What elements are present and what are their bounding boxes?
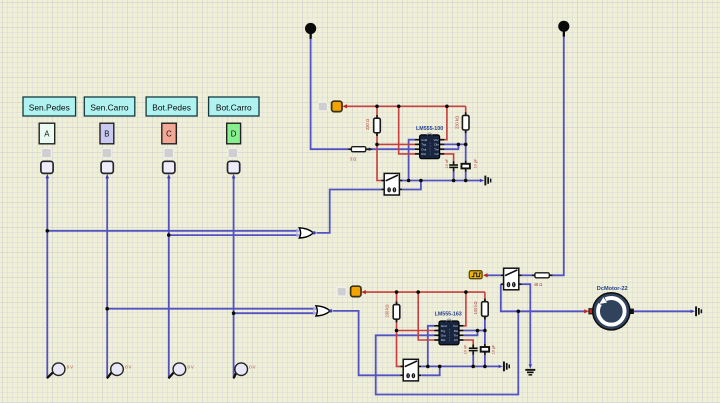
node C branch bbox=[167, 233, 171, 237]
pulse source icon bbox=[469, 271, 482, 279]
wire relay1 coil drop bbox=[402, 181, 421, 190]
wire switch C down to probe bbox=[168, 177, 170, 379]
node Thr2 tie bbox=[476, 329, 480, 333]
wire red rail to Rst1 bbox=[399, 106, 415, 154]
wire Gnd1 pin to bottom rail bbox=[409, 140, 416, 181]
svg-text:0 V: 0 V bbox=[249, 364, 255, 369]
svg-text:0 V: 0 V bbox=[188, 364, 194, 369]
svg-text:DcMotor-22: DcMotor-22 bbox=[597, 286, 628, 292]
wire red CV1 to cap1 bbox=[444, 154, 454, 162]
wire Dis1 to 230k leg bbox=[444, 143, 466, 145]
wire red CV2 to cap3 bbox=[464, 340, 474, 344]
wire D to OR2 input bbox=[234, 312, 314, 314]
node rail1-R1 bbox=[375, 105, 379, 109]
node D branch bbox=[232, 311, 236, 315]
node rail2-R4 bbox=[395, 290, 399, 294]
push switch C bbox=[163, 161, 175, 173]
node Trg2 bbox=[395, 329, 399, 333]
IC U1 LM555-100 bbox=[415, 133, 444, 159]
node coil1 drop bbox=[419, 179, 423, 183]
wire red R4 bottom to relay2 bbox=[397, 319, 401, 366]
wire switch D down to probe bbox=[233, 177, 235, 379]
label box Bot.Pedes bbox=[146, 97, 197, 116]
wire bottom ground rail 1 bbox=[402, 180, 481, 182]
capacitor C4 10uF bbox=[481, 344, 489, 355]
wire Thr2 tie to Dis2 bbox=[464, 331, 478, 336]
wire red Vcc2 to rail2 bbox=[464, 292, 466, 326]
gray indicator 2 bbox=[337, 287, 346, 296]
svg-text:D: D bbox=[231, 129, 237, 138]
capacitor C1 10nF bbox=[449, 161, 458, 171]
wire cap4 bottom bbox=[484, 354, 486, 366]
arrow into G4 bbox=[691, 310, 695, 313]
svg-text:230 Ω: 230 Ω bbox=[365, 119, 370, 130]
resistor R1 230 Ohm bbox=[374, 115, 381, 136]
arrow into G3 bbox=[529, 364, 532, 368]
node Thr1 tie bbox=[457, 143, 461, 147]
input B box bbox=[100, 123, 114, 144]
capacitor C2 10uF bbox=[462, 161, 470, 172]
wire Thr1 tie to Dis1 bbox=[444, 144, 459, 149]
resistor R5 100k bbox=[482, 299, 489, 320]
svg-text:3 Ω: 3 Ω bbox=[350, 156, 356, 161]
orange button 2 bbox=[351, 286, 361, 296]
arrow into switch B bbox=[105, 174, 109, 179]
supply terminal P2 bbox=[558, 21, 569, 37]
node rail2-Vcc2 bbox=[464, 290, 468, 294]
arrow into switch D bbox=[232, 174, 236, 179]
wire cap3 bottom bbox=[472, 354, 474, 366]
wire red rail2 to R5 top bbox=[484, 292, 486, 302]
svg-text:100 kΩ: 100 kΩ bbox=[473, 301, 478, 314]
resistor R2 230k bbox=[462, 112, 469, 133]
label box Sen.Pedes bbox=[23, 97, 76, 116]
probe 4 bbox=[234, 363, 256, 378]
indicator B bbox=[102, 148, 112, 157]
node gnd1 drop bbox=[407, 179, 411, 183]
svg-text:0 V: 0 V bbox=[67, 364, 73, 369]
arrow into switch A bbox=[46, 174, 50, 179]
resistor R4 230k bbox=[393, 302, 400, 323]
arrow into G1 bbox=[480, 179, 484, 182]
wire red R1 bottom to relay1 bbox=[377, 133, 381, 181]
wire supply1 down to 3-ohm resistor bbox=[311, 38, 349, 149]
svg-text:10 nF: 10 nF bbox=[464, 344, 468, 354]
svg-text:0 V: 0 V bbox=[125, 364, 131, 369]
svg-text:10 nF: 10 nF bbox=[445, 158, 449, 168]
input C box bbox=[162, 123, 177, 144]
push switch A bbox=[41, 161, 53, 173]
wire OR2 output to relay2 coil bbox=[333, 311, 400, 375]
wire cap2 bottom bbox=[465, 171, 467, 180]
wire red rail1 to R2 top bbox=[465, 106, 467, 116]
node cap2 bbox=[464, 179, 468, 183]
wire pulse icon to relay3 bbox=[488, 274, 501, 276]
node Dis2 bbox=[483, 329, 487, 333]
svg-text:Bot.Carro: Bot.Carro bbox=[216, 102, 252, 112]
wire red rail 2 bbox=[366, 291, 485, 293]
probe 1 bbox=[48, 363, 74, 378]
svg-text:LM555-100: LM555-100 bbox=[416, 126, 443, 132]
relay RL3 bbox=[501, 268, 522, 290]
svg-text:230 kΩ: 230 kΩ bbox=[385, 304, 390, 317]
wire relay2 coil drop bbox=[421, 366, 439, 375]
relay RL1 bbox=[381, 173, 402, 195]
probe 3 bbox=[169, 363, 194, 378]
svg-text:230 kΩ: 230 kΩ bbox=[455, 116, 460, 129]
input A box bbox=[39, 123, 55, 144]
indicator A bbox=[42, 148, 52, 157]
push switch D bbox=[228, 161, 240, 173]
svg-text:A: A bbox=[44, 129, 50, 138]
arrow into button 2 bbox=[361, 290, 366, 294]
wire supply2 down to 48-ohm bbox=[552, 36, 564, 275]
probe 2 bbox=[108, 363, 132, 378]
ground G1 bbox=[484, 176, 491, 186]
ground G4 bbox=[695, 306, 702, 316]
svg-text:10 µF: 10 µF bbox=[473, 158, 477, 168]
node Dis1 bbox=[464, 143, 468, 147]
node rail2-Rst2 bbox=[416, 290, 420, 294]
svg-text:Bot.Pedes: Bot.Pedes bbox=[152, 102, 191, 112]
wire red junction to Trg1 bbox=[377, 143, 415, 145]
wire red top rail 1 bbox=[347, 105, 466, 107]
push switch B bbox=[101, 161, 113, 173]
wire bottom ground rail 2 bbox=[421, 365, 498, 367]
node Trg1 bbox=[375, 143, 379, 147]
node motor branch bbox=[517, 310, 521, 314]
arrow into G2 bbox=[499, 365, 503, 368]
input D box bbox=[227, 123, 241, 144]
wire OR1 output to relay1 coil bbox=[317, 190, 382, 233]
arrow into motor bbox=[584, 309, 589, 313]
wire Out2 long loop to motor node bbox=[376, 311, 519, 394]
OR gate 1 bbox=[296, 228, 316, 238]
svg-text:B: B bbox=[104, 129, 109, 138]
ground G2 bbox=[503, 362, 510, 372]
wire C to OR1 input bbox=[169, 234, 297, 236]
resistor R3 3 Ohm bbox=[348, 147, 369, 152]
relay RL2 bbox=[400, 359, 421, 381]
arrow into pulse icon bbox=[483, 273, 488, 277]
wire relay3 coil to ground bbox=[522, 284, 531, 366]
svg-text:Sen.Pedes: Sen.Pedes bbox=[29, 102, 70, 112]
indicator D bbox=[228, 148, 238, 157]
wire A to OR1 input bbox=[47, 230, 296, 232]
wire Dis2 to 100k leg bbox=[464, 330, 485, 332]
svg-text:48 Ω: 48 Ω bbox=[534, 282, 543, 287]
node B branch bbox=[105, 307, 109, 311]
ground G3 bbox=[525, 369, 535, 376]
wire B to OR2 input bbox=[107, 308, 313, 310]
svg-text:LM555-163: LM555-163 bbox=[435, 312, 462, 318]
wire Gnd2 pin to bottom rail 2 bbox=[428, 326, 435, 367]
wire red Vcc1 to rail bbox=[444, 106, 447, 139]
wire 230k bottom to cap bbox=[465, 130, 467, 161]
wire Out1 pin run bbox=[369, 148, 415, 150]
node rail1-Vcc bbox=[445, 105, 449, 109]
arrow into button 1 bbox=[342, 104, 347, 108]
node gnd2 drop bbox=[426, 365, 430, 369]
wire switch A down to probe bbox=[46, 177, 48, 379]
capacitor C3 10nF bbox=[469, 344, 478, 354]
wire motor to right ground bbox=[634, 310, 691, 312]
label box Bot.Carro bbox=[209, 97, 259, 116]
node cap4 bbox=[483, 365, 487, 369]
IC U2 LM555-163 bbox=[434, 319, 463, 345]
arrow into switch C bbox=[167, 174, 171, 179]
node coil2 drop bbox=[438, 365, 442, 369]
svg-text:C: C bbox=[166, 129, 172, 138]
wire red rail to R1 top bbox=[376, 106, 378, 115]
node A branch bbox=[46, 229, 50, 233]
motor M1 DcMotor-22 bbox=[589, 293, 634, 330]
svg-text:Sen.Carro: Sen.Carro bbox=[90, 102, 129, 112]
orange button 1 bbox=[332, 101, 342, 111]
OR gate 2 bbox=[313, 306, 333, 316]
arrow out1 bbox=[369, 148, 373, 151]
wire red rail2 to R4 top bbox=[396, 292, 398, 305]
wire red rail2 to Rst2 bbox=[418, 292, 434, 340]
wire relay3 coil to motor bbox=[501, 284, 584, 311]
supply terminal P1 bbox=[305, 23, 316, 39]
node cap3 bbox=[471, 365, 475, 369]
wire switch B down to probe bbox=[106, 177, 108, 379]
wire 100k bottom to cap bbox=[484, 316, 486, 344]
gray indicator 1 bbox=[318, 102, 327, 111]
node rail1-Rst bbox=[397, 105, 401, 109]
wire red junction to Trg2 bbox=[397, 330, 435, 332]
wire cap1 bottom bbox=[453, 171, 455, 181]
resistor R6 48 Ohm bbox=[532, 273, 553, 278]
wire relay3 to 48-ohm resistor bbox=[522, 274, 532, 276]
label box Sen.Carro bbox=[84, 97, 135, 116]
indicator C bbox=[164, 148, 174, 157]
svg-text:10 µF: 10 µF bbox=[492, 344, 496, 354]
node cap1 bbox=[452, 179, 456, 183]
